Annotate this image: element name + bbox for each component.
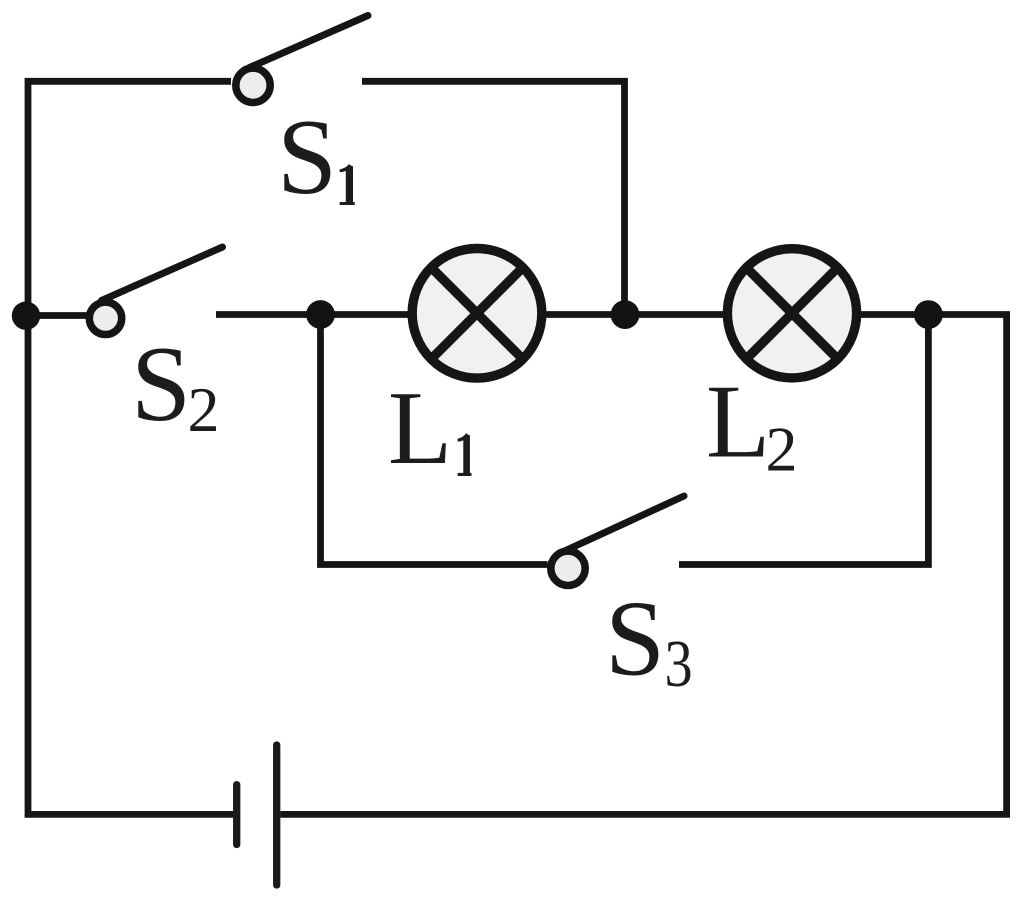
svg-text:2: 2 [188, 374, 220, 445]
svg-text:S: S [605, 580, 665, 699]
svg-text:S: S [131, 325, 191, 444]
svg-text:3: 3 [665, 628, 693, 702]
svg-text:2: 2 [766, 414, 798, 485]
svg-text:L: L [706, 363, 770, 480]
svg-text:S: S [277, 98, 337, 217]
svg-text:L: L [388, 369, 452, 486]
